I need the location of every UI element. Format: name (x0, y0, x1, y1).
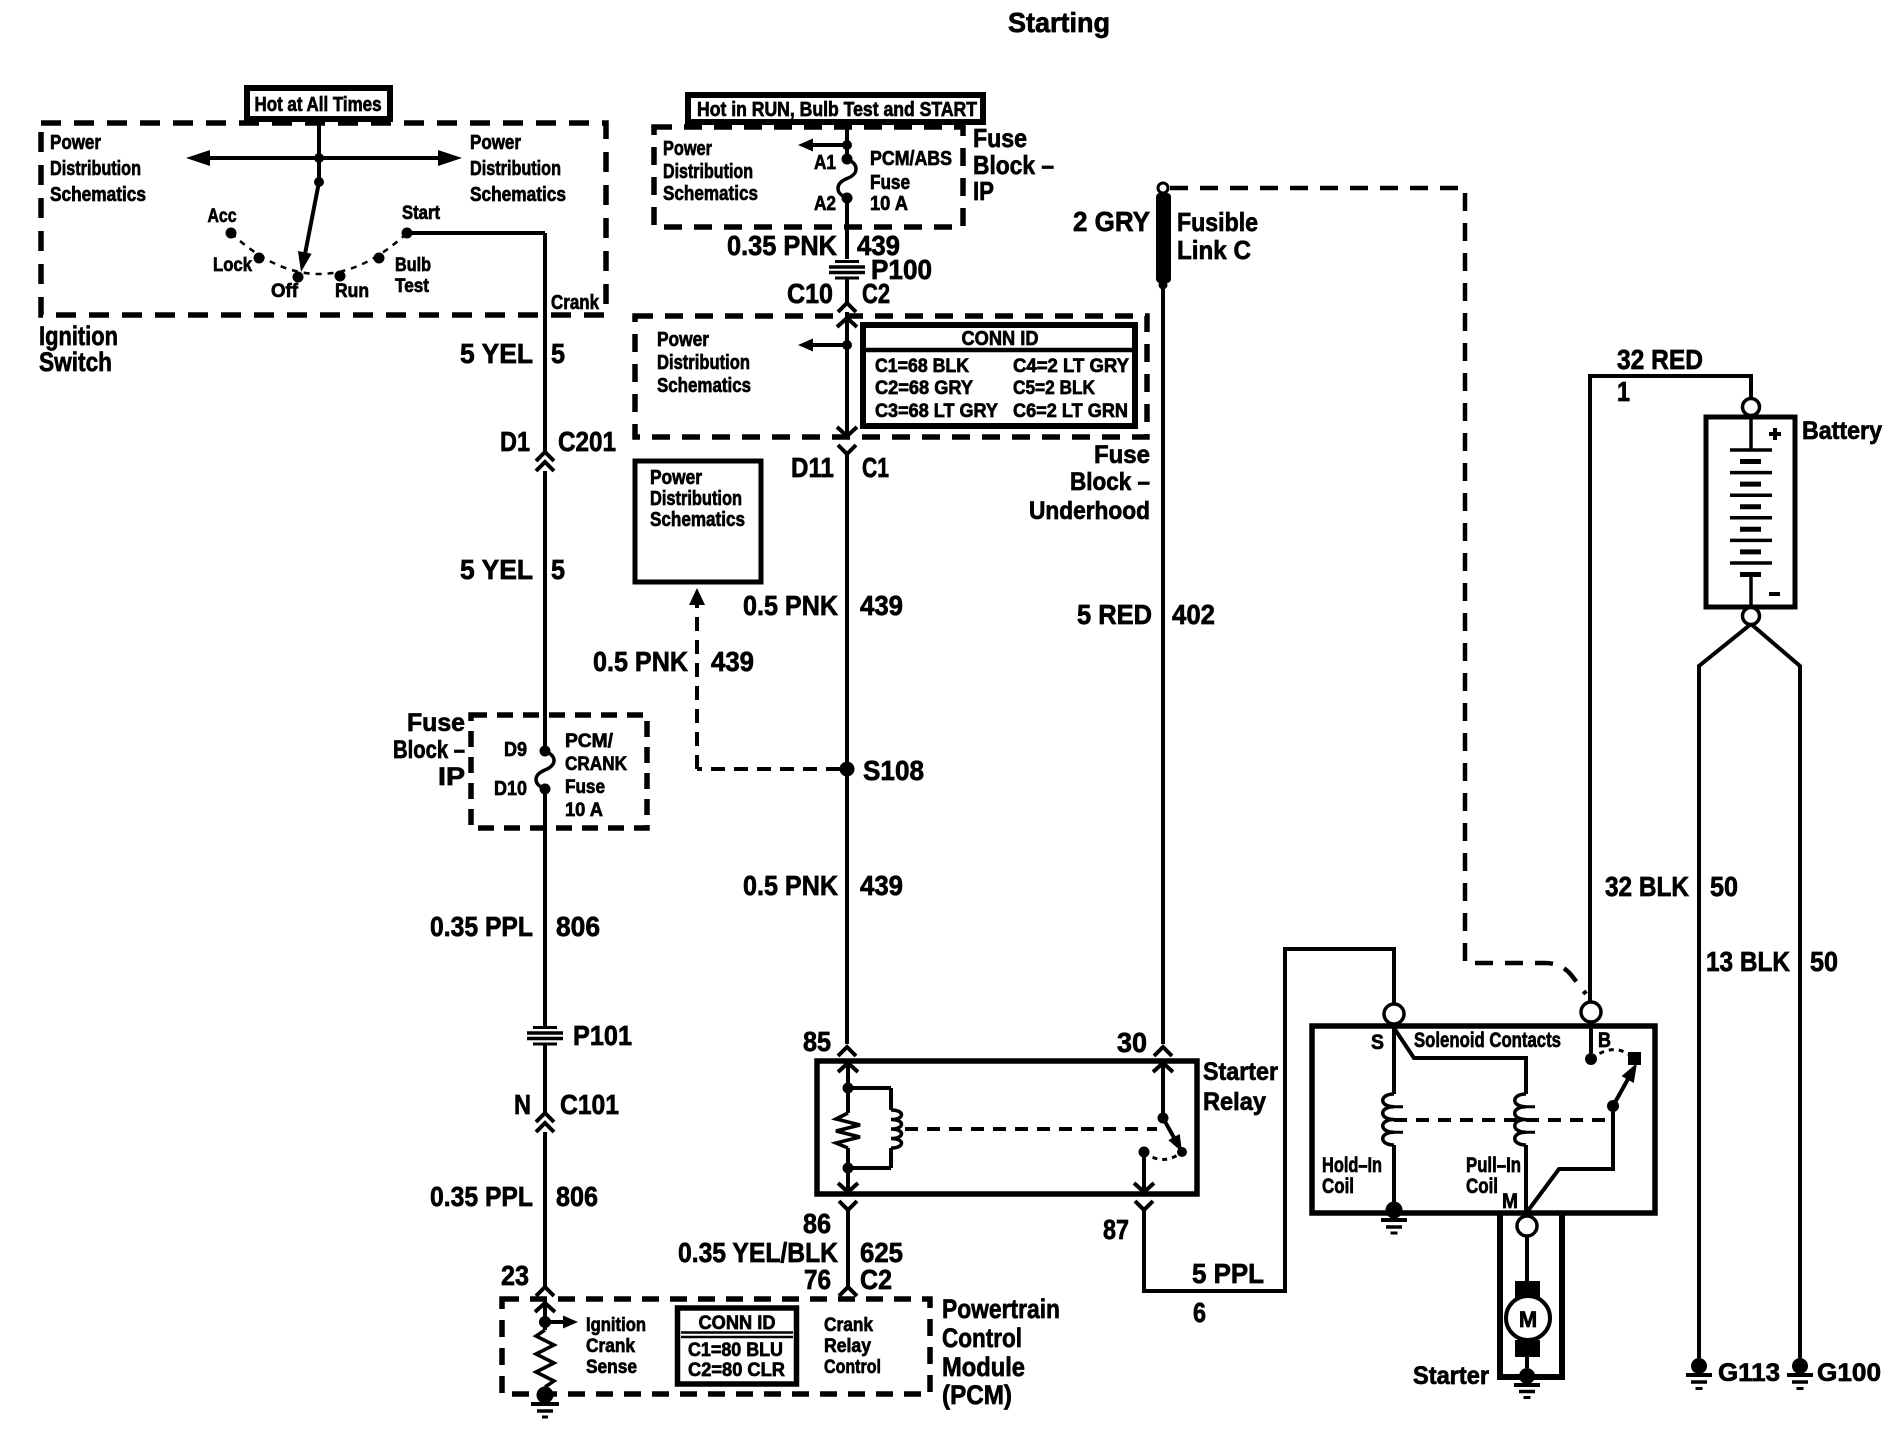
svg-text:C10: C10 (787, 278, 833, 309)
svg-text:10 A: 10 A (870, 193, 908, 215)
svg-text:0.35 PNK: 0.35 PNK (727, 230, 837, 261)
svg-text:A1: A1 (814, 152, 836, 174)
svg-text:C4=2 LT GRY: C4=2 LT GRY (1013, 356, 1129, 377)
svg-text:806: 806 (556, 911, 600, 942)
svg-text:CRANK: CRANK (565, 754, 627, 775)
svg-text:Hot at All Times: Hot at All Times (255, 94, 382, 116)
svg-text:Coil: Coil (1466, 1175, 1498, 1198)
svg-text:86: 86 (803, 1208, 831, 1239)
svg-text:Block –: Block – (393, 736, 465, 764)
svg-text:Lock: Lock (213, 255, 252, 276)
svg-text:439: 439 (860, 590, 903, 621)
svg-text:C3=68 LT GRY: C3=68 LT GRY (875, 401, 998, 422)
svg-text:Relay: Relay (1203, 1088, 1266, 1116)
svg-text:Solenoid Contacts: Solenoid Contacts (1414, 1029, 1561, 1052)
svg-text:C1=68 BLK: C1=68 BLK (875, 356, 969, 377)
svg-text:Distribution: Distribution (657, 352, 750, 374)
svg-text:C1=80 BLU: C1=80 BLU (688, 1340, 783, 1361)
svg-text:C2=80 CLR: C2=80 CLR (688, 1360, 785, 1381)
svg-text:A2: A2 (814, 193, 836, 215)
svg-text:Coil: Coil (1322, 1175, 1354, 1198)
svg-text:0.5 PNK: 0.5 PNK (743, 870, 838, 901)
svg-text:Link C: Link C (1177, 235, 1251, 265)
svg-text:Start: Start (402, 203, 441, 224)
svg-text:5: 5 (551, 338, 565, 369)
svg-text:Fuse: Fuse (973, 123, 1027, 153)
svg-text:Ignition: Ignition (586, 1315, 646, 1336)
svg-text:5 PPL: 5 PPL (1192, 1258, 1264, 1289)
svg-text:Off: Off (271, 281, 299, 302)
svg-text:C2: C2 (860, 1264, 892, 1295)
svg-text:0.35 PPL: 0.35 PPL (430, 1181, 533, 1212)
svg-text:Distribution: Distribution (663, 161, 753, 183)
svg-text:Distribution: Distribution (470, 158, 561, 180)
svg-text:Starter: Starter (1203, 1058, 1278, 1086)
svg-text:Power: Power (470, 132, 521, 154)
svg-text:1: 1 (1617, 376, 1630, 407)
svg-text:S108: S108 (863, 755, 924, 786)
svg-text:Distribution: Distribution (50, 158, 141, 180)
svg-text:Block –: Block – (1070, 468, 1150, 496)
svg-text:N: N (514, 1089, 531, 1120)
svg-text:S: S (1371, 1031, 1384, 1054)
svg-text:C6=2 LT GRN: C6=2 LT GRN (1013, 401, 1128, 422)
svg-text:P101: P101 (573, 1020, 632, 1051)
svg-text:5 RED: 5 RED (1077, 599, 1152, 630)
svg-text:23: 23 (501, 1260, 529, 1291)
svg-text:D9: D9 (504, 739, 527, 761)
svg-text:Starting: Starting (1008, 7, 1110, 38)
svg-text:M: M (1502, 1190, 1518, 1213)
svg-text:Hold–In: Hold–In (1322, 1154, 1382, 1177)
svg-text:32 RED: 32 RED (1617, 344, 1703, 375)
svg-text:50: 50 (1710, 871, 1738, 902)
svg-text:0.35 PPL: 0.35 PPL (430, 911, 533, 942)
svg-text:CONN ID: CONN ID (962, 328, 1039, 350)
svg-text:Acc: Acc (208, 206, 237, 227)
svg-text:Power: Power (50, 132, 101, 154)
svg-text:Run: Run (335, 281, 369, 302)
svg-text:32 BLK: 32 BLK (1605, 871, 1689, 902)
svg-text:Fusible: Fusible (1177, 207, 1258, 237)
svg-text:Schematics: Schematics (50, 184, 146, 206)
svg-text:PCM/ABS: PCM/ABS (870, 148, 952, 170)
svg-text:402: 402 (1172, 599, 1215, 630)
svg-text:6: 6 (1193, 1297, 1206, 1328)
svg-text:C201: C201 (558, 426, 616, 457)
svg-text:PCM/: PCM/ (565, 731, 614, 752)
svg-text:Fuse: Fuse (1094, 441, 1150, 469)
svg-text:Module: Module (942, 1352, 1025, 1382)
svg-text:Schematics: Schematics (470, 184, 566, 206)
svg-text:Fuse: Fuse (407, 709, 465, 737)
svg-text:Crank: Crank (824, 1315, 873, 1336)
svg-text:0.5 PNK: 0.5 PNK (743, 590, 838, 621)
svg-text:G100: G100 (1817, 1359, 1881, 1387)
svg-text:2 GRY: 2 GRY (1073, 206, 1150, 237)
svg-text:Power: Power (663, 138, 712, 160)
svg-text:30: 30 (1117, 1027, 1147, 1058)
svg-text:Schematics: Schematics (657, 375, 751, 397)
svg-text:Power: Power (650, 467, 702, 489)
svg-text:IP: IP (438, 763, 465, 791)
svg-text:13 BLK: 13 BLK (1706, 946, 1790, 977)
svg-text:Test: Test (395, 276, 430, 297)
svg-text:439: 439 (860, 870, 903, 901)
svg-text:IP: IP (973, 176, 994, 206)
svg-text:439: 439 (711, 646, 754, 677)
svg-text:Powertrain: Powertrain (942, 1294, 1060, 1324)
svg-text:806: 806 (556, 1181, 598, 1212)
svg-text:Crank: Crank (551, 292, 600, 314)
svg-text:Bulb: Bulb (395, 255, 431, 276)
svg-text:Hot in RUN, Bulb Test and STAR: Hot in RUN, Bulb Test and START (697, 99, 977, 121)
svg-text:Underhood: Underhood (1029, 497, 1150, 525)
svg-text:G113: G113 (1718, 1359, 1780, 1387)
svg-text:M: M (1519, 1307, 1537, 1332)
svg-text:10 A: 10 A (565, 800, 603, 821)
svg-text:Starter: Starter (1413, 1362, 1489, 1390)
svg-text:Schematics: Schematics (650, 509, 745, 531)
svg-text:Relay: Relay (824, 1336, 871, 1357)
svg-text:Control: Control (824, 1357, 881, 1378)
svg-text:Pull–In: Pull–In (1466, 1154, 1521, 1177)
svg-text:50: 50 (1810, 946, 1838, 977)
svg-text:Power: Power (657, 329, 709, 351)
svg-text:0.5 PNK: 0.5 PNK (593, 646, 688, 677)
svg-text:5: 5 (551, 554, 565, 585)
svg-text:C1: C1 (862, 452, 889, 483)
svg-text:(PCM): (PCM) (942, 1380, 1012, 1410)
svg-text:D1: D1 (500, 426, 530, 457)
svg-text:76: 76 (804, 1264, 831, 1295)
svg-text:Control: Control (942, 1323, 1022, 1353)
svg-text:Fuse: Fuse (870, 172, 910, 194)
svg-text:5 YEL: 5 YEL (460, 554, 533, 585)
svg-text:Fuse: Fuse (565, 777, 605, 798)
svg-text:D11: D11 (791, 452, 834, 483)
svg-text:Switch: Switch (39, 347, 112, 377)
svg-text:85: 85 (803, 1026, 831, 1057)
svg-text:C5=2 BLK: C5=2 BLK (1013, 378, 1095, 399)
svg-text:Crank: Crank (586, 1336, 635, 1357)
svg-text:5 YEL: 5 YEL (460, 338, 533, 369)
svg-text:Battery: Battery (1802, 417, 1882, 445)
svg-text:Schematics: Schematics (663, 183, 758, 205)
svg-text:CONN ID: CONN ID (699, 1313, 776, 1334)
svg-text:D10: D10 (494, 778, 527, 800)
svg-text:C2=68 GRY: C2=68 GRY (875, 378, 973, 399)
svg-text:C2: C2 (862, 278, 890, 309)
svg-text:B: B (1598, 1029, 1611, 1052)
svg-text:C101: C101 (560, 1089, 619, 1120)
svg-text:Distribution: Distribution (650, 488, 742, 510)
svg-text:Sense: Sense (586, 1357, 637, 1378)
svg-text:87: 87 (1103, 1214, 1129, 1245)
